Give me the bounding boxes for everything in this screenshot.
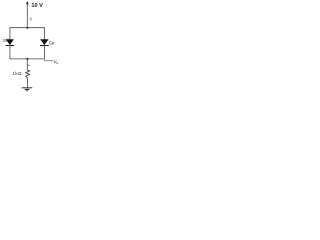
arrowhead output [51, 60, 53, 62]
background [0, 0, 64, 95]
wire bottom rail [10, 58, 45, 60]
svg-text:1kΩ: 1kΩ [12, 71, 22, 76]
resistor R 1kohm [26, 59, 30, 88]
diode Si (left) [6, 39, 15, 45]
svg-text:10 V: 10 V [31, 3, 43, 9]
wire right branch lower [43, 46, 45, 59]
node junction dot bottom [26, 58, 28, 60]
current label I [30, 18, 31, 21]
diode Ge (right) [40, 39, 49, 45]
wire supply stem [26, 4, 28, 28]
wire output lead [44, 59, 52, 61]
svg-text:Ge: Ge [49, 40, 55, 45]
supply arrow (10 V source) [26, 1, 29, 5]
node junction dot top [26, 27, 28, 29]
wire top rail [10, 28, 45, 40]
ground [22, 88, 33, 91]
svg-text:Si: Si [3, 38, 7, 43]
wire left branch lower [9, 46, 11, 59]
